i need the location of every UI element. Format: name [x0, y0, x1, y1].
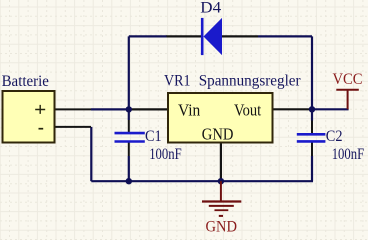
svg-text:100nF: 100nF	[149, 146, 182, 163]
regulator pin Vout wire stub	[274, 108, 310, 110]
battery plus mark	[35, 105, 45, 114]
svg-text:GND: GND	[206, 218, 238, 235]
wire battery minus down to bottom rail	[90, 127, 92, 181]
power port VCC bar	[336, 90, 359, 110]
svg-text:Spannungsregler: Spannungsregler	[199, 73, 302, 90]
junction node bottom GND	[218, 178, 224, 184]
capacitor C1 pins	[128, 120, 130, 156]
svg-text:Vout: Vout	[234, 101, 262, 120]
battery pin -	[56, 126, 92, 128]
svg-text:VCC: VCC	[333, 71, 363, 88]
battery pin +	[56, 108, 92, 110]
junction node Vout/VCC	[309, 106, 315, 112]
diode D4 body	[201, 18, 222, 55]
regulator pin GND wire stub	[220, 144, 222, 182]
battery minus mark	[39, 128, 44, 130]
diode D4 cathode pin	[167, 35, 202, 37]
svg-text:C2: C2	[326, 128, 343, 145]
svg-text:C1: C1	[145, 128, 162, 145]
wire right riser through C2	[311, 109, 313, 181]
svg-text:GND: GND	[202, 124, 234, 143]
ground GND symbol	[202, 181, 241, 216]
wire top rail	[129, 36, 312, 109]
svg-text:Vin: Vin	[178, 101, 201, 120]
svg-text:VR1: VR1	[164, 73, 191, 90]
regulator pin Vin wire stub	[131, 108, 167, 110]
wire battery plus to Vin (net segment)	[91, 108, 131, 110]
wire Vout to VCC	[309, 108, 349, 110]
capacitor C1 plates	[115, 133, 145, 141]
wire left vertical riser (top rail drop)	[128, 36, 130, 181]
junction node battery+/riser	[126, 106, 132, 112]
capacitor C2 plates	[297, 134, 326, 141]
svg-text:100nF: 100nF	[332, 146, 365, 163]
regulator VR1 body	[168, 93, 273, 143]
diode D4 anode pin	[222, 35, 258, 37]
battery Batterie body	[3, 91, 55, 143]
junction node bottom-left	[126, 178, 132, 184]
svg-text:Batterie: Batterie	[2, 73, 49, 90]
svg-text:D4: D4	[200, 0, 221, 17]
wire bottom rail	[91, 180, 313, 182]
capacitor C2 pins	[311, 121, 313, 157]
